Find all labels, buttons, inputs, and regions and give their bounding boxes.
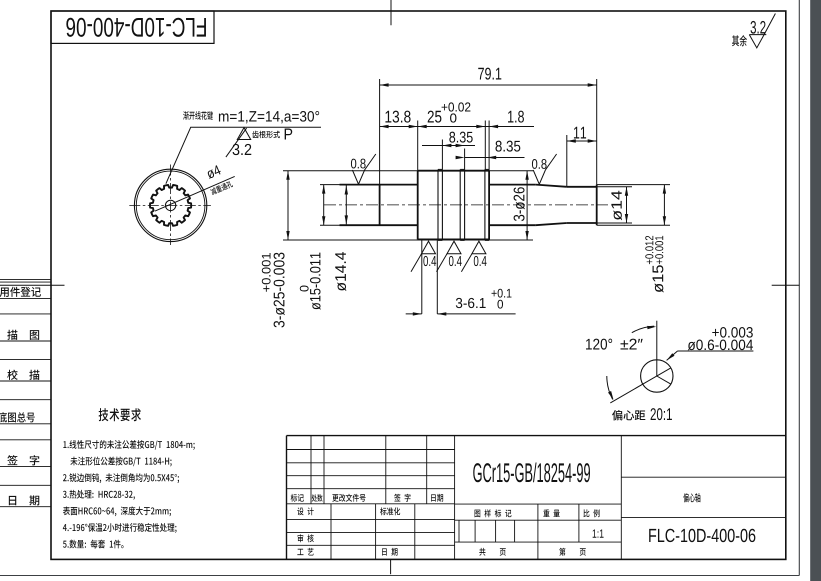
- paper edge right line: [798, 0, 800, 576]
- centering mark right: [772, 284, 800, 286]
- dim 11: [567, 140, 597, 142]
- paper edge bottom line: [0, 575, 799, 577]
- part number box (rotated): [51, 11, 214, 43]
- material spec text: [473, 463, 481, 482]
- roughness 0.4 at groove x=454.0: [447, 241, 461, 254]
- centering mark bottom: [390, 559, 392, 574]
- roughness 0.8 (right section): [533, 154, 556, 184]
- spline tooth profile: [150, 185, 191, 226]
- dim 79.1: [380, 84, 597, 86]
- centering mark left: [0, 284, 65, 286]
- dim 3-phi25: [287, 171, 289, 240]
- roughness 0.8 (spline section): [352, 154, 375, 184]
- dimension extension lines: [379, 79, 381, 185]
- phi4 leader: [155, 176, 235, 211]
- spline flank roughness 3.2: [237, 128, 250, 140]
- eccentric detail (120deg, phi0.6, 20:1): [641, 360, 673, 392]
- phi26 flanges (3x): [437, 169, 439, 240]
- spline callout text: [183, 111, 213, 120]
- general roughness note (qi yu 3.2): [732, 35, 747, 46]
- dim 8.35 (second): [465, 157, 525, 159]
- left margin labels: [0, 287, 41, 297]
- spline callout underline+leader: [166, 127, 321, 183]
- roughness 0.4 at groove x=428.5: [422, 241, 436, 254]
- dim 3-6.1: [421, 240, 423, 314]
- center hole phi4: [165, 200, 175, 210]
- part number bottom: [649, 529, 656, 542]
- dim 13.8 / 25 / 1.8: [380, 126, 534, 128]
- dim phi15 -0.011: [323, 185, 325, 226]
- end view inner circle (phi25): [136, 171, 205, 240]
- dim phi15 +0.012/+0.001: [663, 185, 665, 226]
- roughness 0.4 at groove x=478.9: [472, 241, 486, 254]
- shaft left spline section: [340, 184, 418, 186]
- part name: [683, 493, 700, 502]
- end view centerlines: [129, 204, 211, 206]
- centering mark top: [390, 0, 392, 25]
- end view outer circle (phi26 disc): [134, 169, 206, 241]
- app background strip: [810, 0, 821, 581]
- dim 3-phi26: [526, 171, 528, 240]
- dim phi14: [626, 187, 628, 223]
- technical requirements text: [63, 440, 194, 450]
- shaft centerline: [324, 204, 608, 206]
- dim 8.35 (first): [422, 145, 475, 147]
- technical requirements title: [99, 408, 141, 421]
- dim phi14.4: [345, 186, 347, 225]
- title block small labels: [291, 494, 304, 502]
- shaft right section with taper: [489, 184, 536, 186]
- shaft phi25 block: [417, 171, 419, 240]
- left margin attachment boxes: [0, 278, 51, 280]
- scale 1:1: [593, 529, 597, 537]
- title block grid: [287, 435, 786, 437]
